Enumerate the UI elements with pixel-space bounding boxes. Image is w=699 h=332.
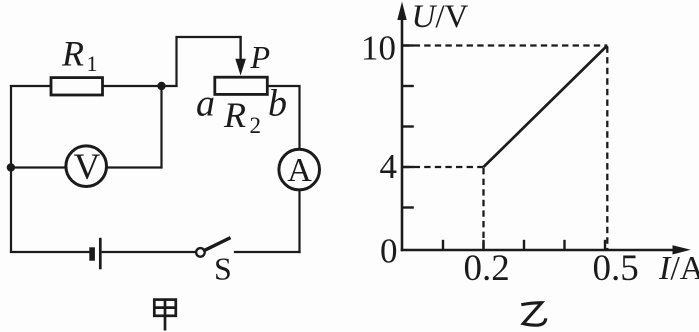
voltmeter V1 [66,146,107,188]
svg-text:b: b [268,83,287,125]
wire top-left horizontal to R1 [10,85,52,87]
label R1 [61,34,98,77]
battery negative plate (short thick) [89,247,95,260]
svg-text:4: 4 [380,147,398,186]
svg-text:0: 0 [380,232,398,271]
label jia (circuit caption) [154,299,176,331]
svg-text:0.2: 0.2 [464,248,510,289]
battery positive plate (long thin) [99,238,102,269]
wire wiper shaft [239,36,241,62]
wire R2 right to ammeter [267,86,300,149]
svg-text:R: R [223,95,246,135]
graph x-axis arrowhead [673,245,691,254]
wire ammeter to bottom rail [298,191,300,254]
dashed line U=4 [403,166,484,168]
wire voltmeter left [11,166,66,168]
graph y-axis arrowhead [397,2,406,21]
wire riser node to top rail [177,37,242,87]
graph y ticks [402,46,414,208]
dashed line I=0.2 [482,168,484,250]
svg-text:0.5: 0.5 [593,248,639,289]
node junction dot (R1 right) [157,82,165,90]
svg-text:V: V [74,147,101,188]
svg-text:U/V: U/V [412,0,469,35]
wire bottom right [234,251,301,253]
switch S lever [205,238,229,250]
ammeter A1 [279,149,320,190]
label yi (graph caption) [521,303,546,325]
graph y-axis [401,17,404,251]
potentiometer wiper arrowhead [235,59,246,76]
wire voltmeter riser to node [160,85,162,168]
label R2 [223,95,261,138]
svg-text:a: a [196,83,215,125]
data line (0.2,4)-(0.5,10) [484,46,608,168]
dashed line U=10 [403,44,607,46]
dashed line I=0.5 [606,47,608,250]
resistor R1 [51,78,103,95]
wire bottom left [10,251,90,253]
node junction dot (voltmeter left) [7,163,15,171]
graph x ticks [443,240,605,250]
wire bottom middle [102,251,197,253]
svg-text:2: 2 [250,113,262,138]
svg-text:R: R [61,34,84,74]
wire R1 right to node [103,85,178,87]
switch S pivot [196,248,205,257]
svg-text:P: P [250,39,271,75]
wire left vertical [10,85,12,253]
wire voltmeter right [107,166,163,168]
graph x-axis [401,249,676,252]
svg-text:A: A [287,152,312,189]
svg-text:S: S [214,251,232,287]
potentiometer R2 body [215,77,267,94]
svg-text:10: 10 [361,28,396,67]
svg-text:1: 1 [87,51,98,76]
svg-text:I/A: I/A [658,250,699,287]
